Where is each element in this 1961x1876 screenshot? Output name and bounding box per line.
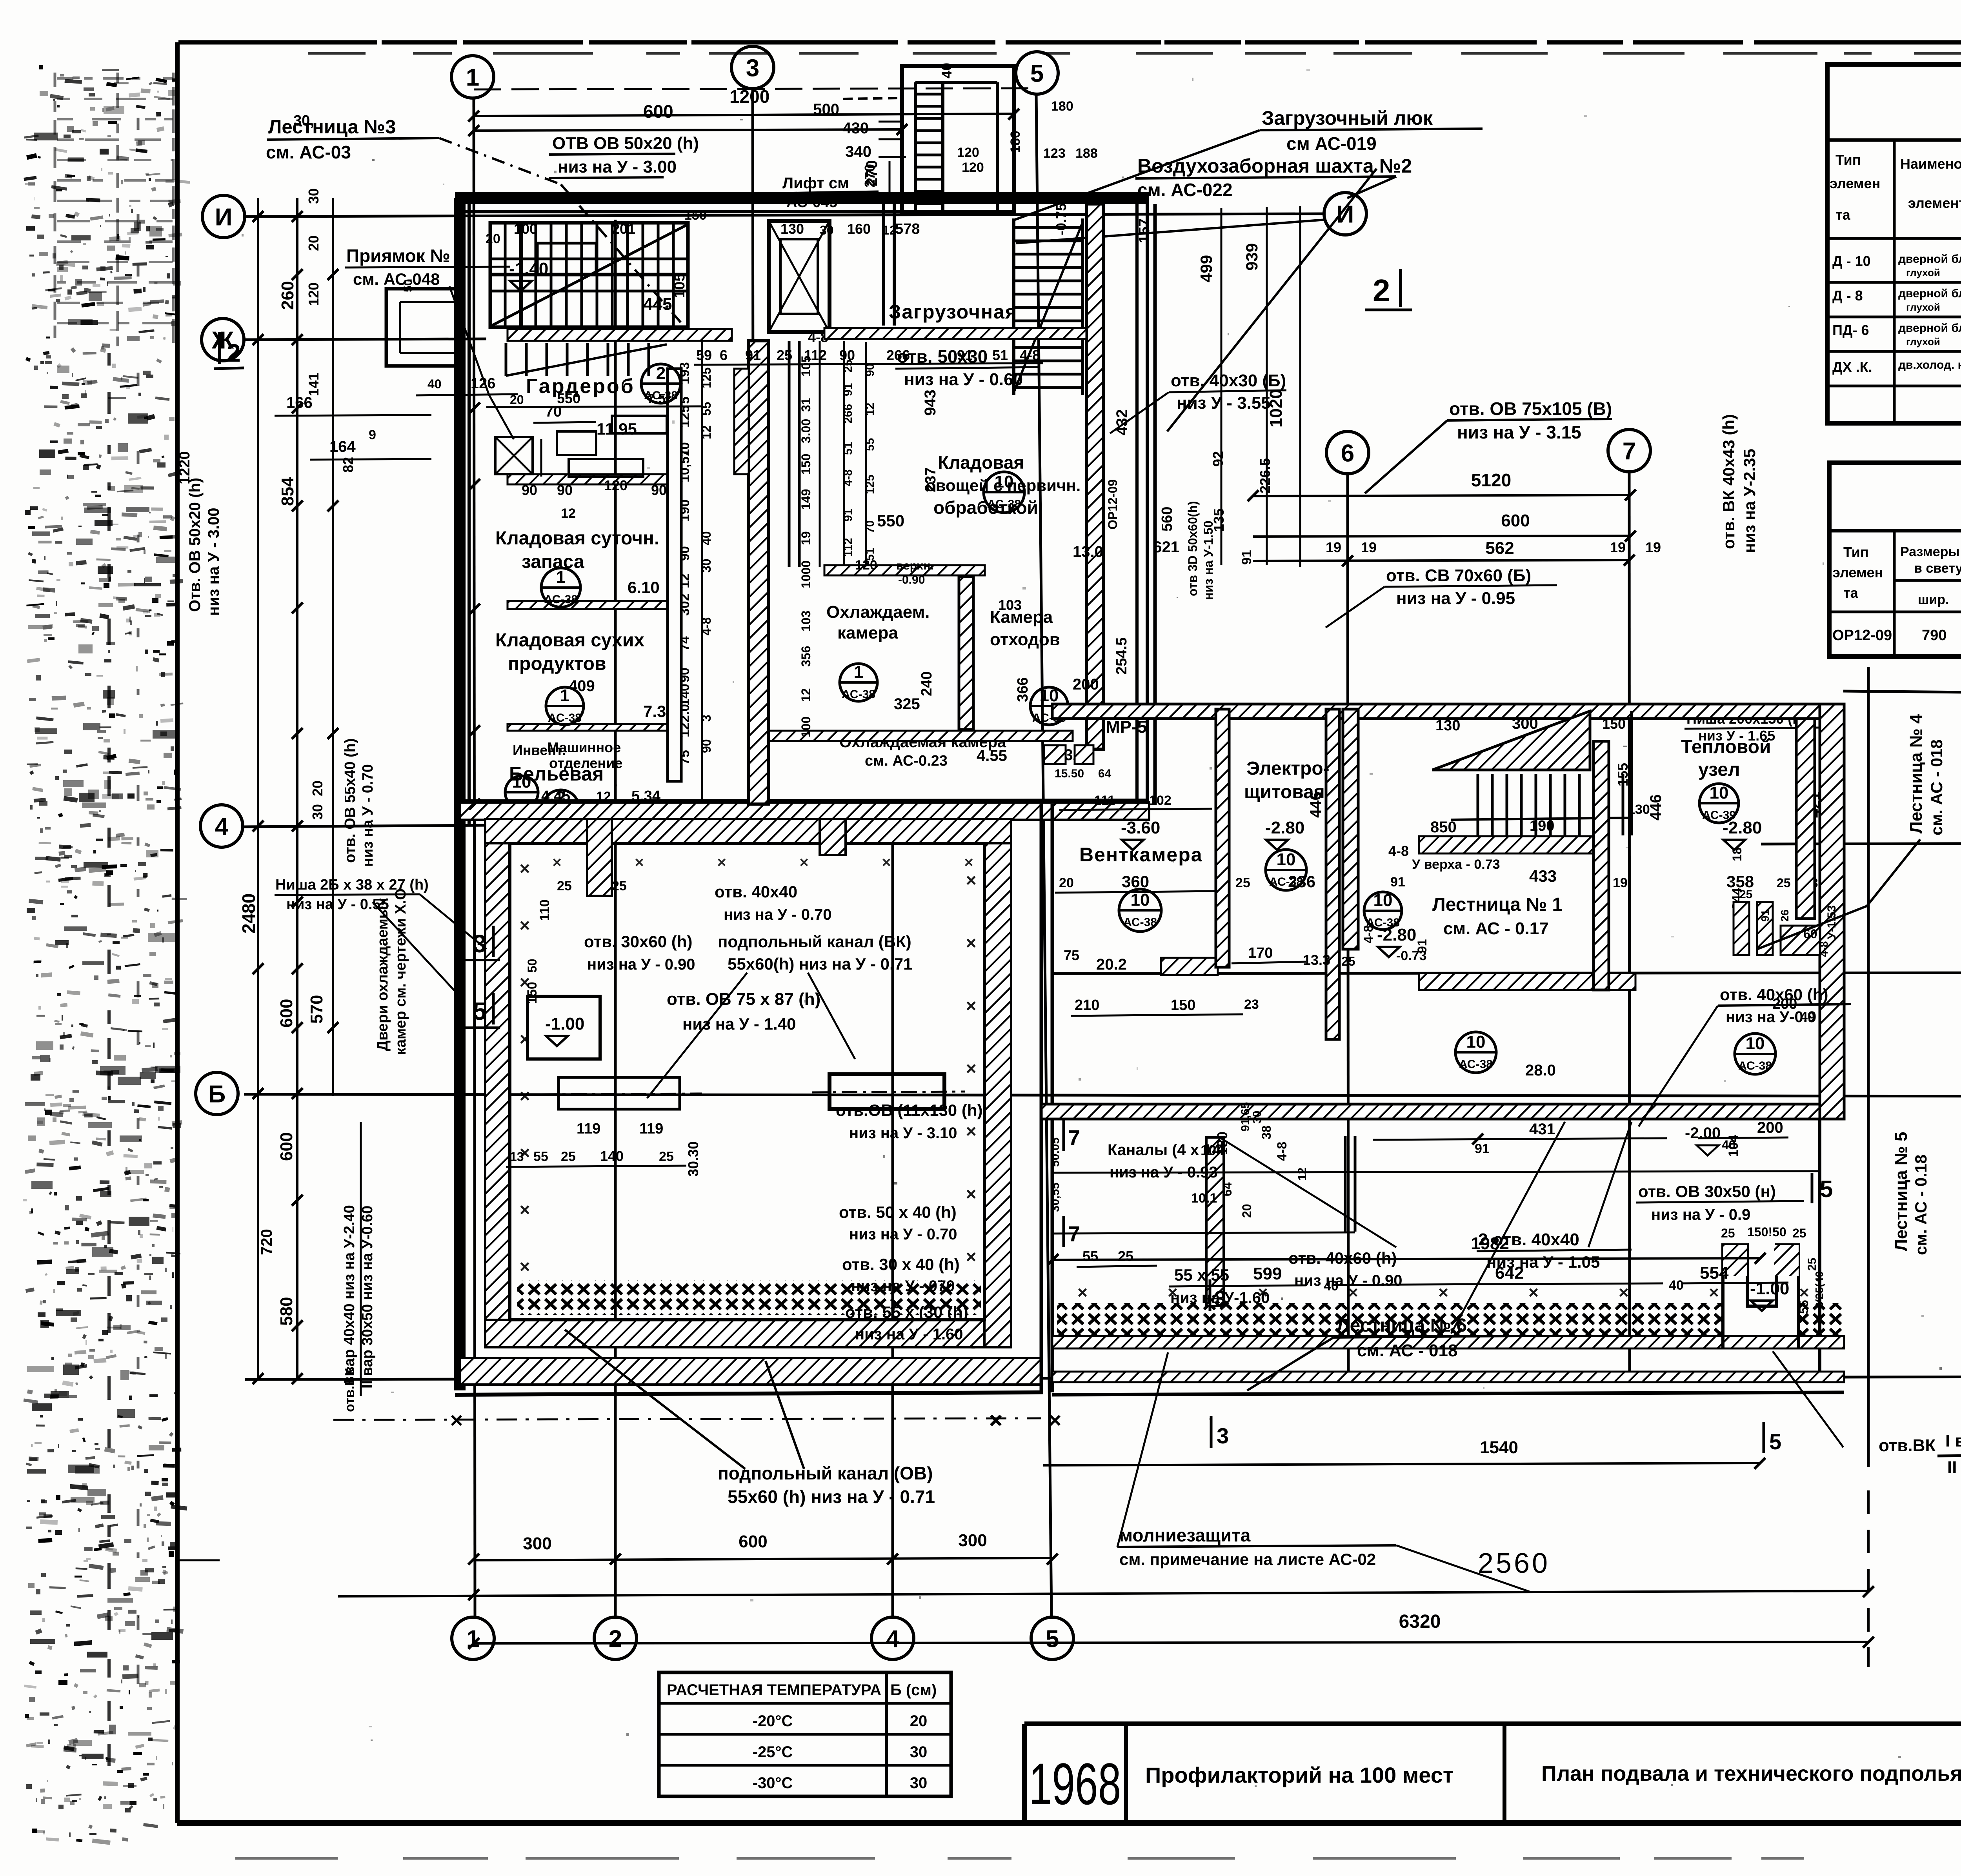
svg-text:102: 102 xyxy=(1149,793,1172,808)
svg-text:см. АС - 018: см. АС - 018 xyxy=(1357,1341,1457,1360)
svg-text:23: 23 xyxy=(1244,997,1259,1012)
svg-text:АС-38: АС-38 xyxy=(548,711,582,724)
svg-text:АС-38: АС-38 xyxy=(1459,1058,1493,1071)
svg-text:5120: 5120 xyxy=(1471,470,1511,490)
svg-text:55: 55 xyxy=(864,438,877,451)
svg-text:554: 554 xyxy=(1700,1263,1729,1283)
svg-text:1: 1 xyxy=(466,64,479,91)
svg-text:19: 19 xyxy=(1613,875,1628,890)
svg-text:125: 125 xyxy=(677,405,692,428)
svg-text:91: 91 xyxy=(1759,910,1771,922)
svg-text:149: 149 xyxy=(799,489,813,510)
svg-text:141: 141 xyxy=(306,373,322,396)
svg-text:1540: 1540 xyxy=(1480,1438,1518,1457)
svg-text:150: 150 xyxy=(684,208,707,223)
svg-text:отв. 30x60 (h): отв. 30x60 (h) xyxy=(584,932,692,951)
svg-text:140: 140 xyxy=(677,684,692,706)
svg-text:19: 19 xyxy=(799,531,813,545)
svg-text:40: 40 xyxy=(939,63,955,78)
svg-text:20: 20 xyxy=(1240,1204,1254,1218)
svg-text:та: та xyxy=(1843,585,1859,601)
svg-text:низ на У - 1.05: низ на У - 1.05 xyxy=(1486,1253,1600,1271)
svg-text:низ на У-1.50: низ на У-1.50 xyxy=(1201,520,1215,600)
svg-text:-2.80: -2.80 xyxy=(1265,818,1304,837)
svg-text:см. АС-0.23: см. АС-0.23 xyxy=(865,753,948,769)
svg-text:25: 25 xyxy=(1341,954,1355,968)
svg-text:150: 150 xyxy=(1602,716,1626,732)
svg-text:низ на У - 3.15: низ на У - 3.15 xyxy=(1457,422,1581,442)
svg-text:глухой: глухой xyxy=(1906,301,1940,313)
svg-text:Загрузочный люк: Загрузочный люк xyxy=(1262,107,1433,129)
svg-text:×: × xyxy=(966,933,977,953)
svg-text:низ на У - 0.90: низ на У - 0.90 xyxy=(587,956,695,973)
svg-text:отв.ВК: отв.ВК xyxy=(1879,1436,1936,1455)
svg-text:5: 5 xyxy=(1030,60,1044,87)
svg-text:499: 499 xyxy=(1197,255,1215,282)
svg-text:6.10: 6.10 xyxy=(628,578,660,597)
svg-text:356: 356 xyxy=(799,646,813,667)
svg-text:130: 130 xyxy=(1628,802,1650,817)
svg-text:10: 10 xyxy=(1373,891,1393,910)
svg-text:низ на У - 0.70: низ на У - 0.70 xyxy=(724,906,832,923)
svg-text:см. АС-022: см. АС-022 xyxy=(1137,180,1233,200)
svg-text:II вар 30x50 низ на У - 0.60: II вар 30x50 низ на У - 0.60 xyxy=(1947,1458,1961,1477)
svg-text:28.0: 28.0 xyxy=(1525,1062,1556,1079)
svg-text:1: 1 xyxy=(854,662,863,682)
svg-text:12: 12 xyxy=(864,403,877,416)
svg-text:55: 55 xyxy=(1797,1300,1811,1314)
svg-text:302: 302 xyxy=(677,593,692,616)
svg-text:низ на У-0.9: низ на У-0.9 xyxy=(1726,1008,1816,1026)
svg-text:25: 25 xyxy=(659,1149,674,1164)
svg-text:120: 120 xyxy=(604,477,628,493)
svg-text:11.95: 11.95 xyxy=(597,420,637,438)
svg-text:дверной блок: дверной блок xyxy=(1898,287,1961,300)
svg-text:20: 20 xyxy=(309,781,326,796)
svg-text:19: 19 xyxy=(1326,539,1341,555)
svg-text:190: 190 xyxy=(677,499,692,522)
svg-text:226.5: 226.5 xyxy=(1257,458,1273,493)
svg-text:План подвала и технического: План подвала и технического подполья в о… xyxy=(1541,1762,1961,1785)
svg-text:600: 600 xyxy=(739,1532,767,1551)
svg-text:5: 5 xyxy=(677,397,692,404)
svg-text:266: 266 xyxy=(886,347,910,363)
svg-text:7: 7 xyxy=(1068,1125,1080,1150)
svg-text:25: 25 xyxy=(1118,1248,1133,1264)
svg-text:91: 91 xyxy=(957,347,973,363)
svg-text:Д - 8: Д - 8 xyxy=(1832,287,1863,304)
svg-text:51: 51 xyxy=(992,347,1008,363)
svg-text:40: 40 xyxy=(427,377,442,391)
svg-text:340: 340 xyxy=(845,143,871,160)
svg-text:170: 170 xyxy=(1248,945,1273,961)
svg-text:12: 12 xyxy=(1296,1168,1309,1181)
svg-text:150!50: 150!50 xyxy=(1747,1225,1786,1239)
svg-text:550: 550 xyxy=(557,390,580,406)
svg-text:отв. ОВ 75 x 87 (h): отв. ОВ 75 x 87 (h) xyxy=(667,990,820,1009)
svg-text:430: 430 xyxy=(842,120,869,137)
svg-text:1220: 1220 xyxy=(176,451,193,484)
svg-text:91: 91 xyxy=(842,383,855,396)
svg-text:562: 562 xyxy=(1485,539,1514,558)
svg-text:-25°C: -25°C xyxy=(753,1743,793,1761)
svg-text:200: 200 xyxy=(1757,1119,1783,1136)
svg-text:201: 201 xyxy=(612,221,635,237)
svg-text:2: 2 xyxy=(609,1625,622,1652)
svg-text:55 x 55: 55 x 55 xyxy=(1174,1266,1229,1284)
svg-text:105: 105 xyxy=(799,356,813,377)
svg-text:160: 160 xyxy=(847,221,871,237)
svg-text:55: 55 xyxy=(1082,1248,1098,1264)
svg-text:180: 180 xyxy=(1051,99,1073,114)
svg-text:237: 237 xyxy=(922,468,939,492)
svg-text:50: 50 xyxy=(402,279,415,292)
svg-text:155: 155 xyxy=(1615,763,1631,786)
svg-text:90: 90 xyxy=(677,668,692,682)
svg-text:низ на У - 1.60: низ на У - 1.60 xyxy=(855,1326,963,1343)
svg-text:×: × xyxy=(520,915,530,935)
svg-text:×: × xyxy=(450,1408,463,1432)
svg-text:30,55: 30,55 xyxy=(1049,1183,1062,1212)
svg-text:-20°C: -20°C xyxy=(753,1712,793,1730)
svg-text:см. АС - 018: см. АС - 018 xyxy=(1927,739,1946,835)
svg-text:АС-38: АС-38 xyxy=(544,593,578,606)
svg-text:ОР12-09: ОР12-09 xyxy=(1106,479,1120,530)
svg-text:шир.: шир. xyxy=(1918,592,1949,607)
svg-text:-2.00: -2.00 xyxy=(1685,1125,1721,1142)
svg-text:20: 20 xyxy=(306,235,322,251)
svg-text:см. АС - 0.18: см. АС - 0.18 xyxy=(1912,1155,1930,1255)
svg-text:854: 854 xyxy=(278,477,297,506)
svg-text:Лестница № 6: Лестница № 6 xyxy=(1337,1315,1467,1336)
svg-text:560: 560 xyxy=(1159,507,1175,531)
svg-text:4-8: 4-8 xyxy=(1818,941,1830,957)
svg-text:отв. ВК 40x43 (h): отв. ВК 40x43 (h) xyxy=(1719,414,1738,549)
svg-text:2: 2 xyxy=(656,364,666,383)
svg-text:10: 10 xyxy=(1040,686,1059,705)
svg-text:105: 105 xyxy=(671,273,688,298)
svg-text:6: 6 xyxy=(1341,440,1354,467)
svg-text:глухой: глухой xyxy=(1906,336,1940,348)
svg-text:120: 120 xyxy=(957,145,979,160)
svg-text:621: 621 xyxy=(1153,539,1179,556)
svg-text:низ на У - 3.00: низ на У - 3.00 xyxy=(558,157,677,177)
svg-text:см. АС - 0.17: см. АС - 0.17 xyxy=(1443,919,1549,938)
svg-text:2480: 2480 xyxy=(238,893,259,933)
svg-text:×: × xyxy=(966,1121,977,1141)
svg-text:550: 550 xyxy=(877,511,904,530)
svg-text:446: 446 xyxy=(1647,794,1664,821)
svg-text:низ на У - 3.00: низ на У - 3.00 xyxy=(205,508,222,616)
svg-text:26: 26 xyxy=(1779,910,1791,922)
svg-text:50.05: 50.05 xyxy=(1049,1137,1062,1167)
svg-text:90: 90 xyxy=(651,482,667,498)
svg-text:103: 103 xyxy=(799,611,813,631)
svg-text:123: 123 xyxy=(1043,146,1066,161)
svg-text:У25(40: У25(40 xyxy=(1813,1271,1825,1306)
svg-text:570: 570 xyxy=(307,995,326,1024)
svg-text:25: 25 xyxy=(1739,888,1752,901)
svg-text:190: 190 xyxy=(1530,818,1554,834)
svg-text:157: 157 xyxy=(1136,218,1153,243)
svg-text:91: 91 xyxy=(1239,550,1254,565)
svg-text:6320: 6320 xyxy=(1399,1611,1441,1632)
svg-text:150: 150 xyxy=(1171,997,1195,1014)
svg-text:Д - 10: Д - 10 xyxy=(1832,253,1871,269)
svg-text:×: × xyxy=(520,1199,530,1220)
svg-text:15.50: 15.50 xyxy=(1055,767,1084,780)
svg-text:Лестница № 4: Лестница № 4 xyxy=(1906,714,1926,833)
svg-text:Профилакторий на 100 мест: Профилакторий на 100 мест xyxy=(1145,1763,1453,1787)
svg-text:51: 51 xyxy=(842,442,855,455)
svg-text:445: 445 xyxy=(643,295,672,314)
svg-text:943: 943 xyxy=(922,389,939,416)
svg-text:7: 7 xyxy=(1068,1221,1080,1246)
svg-text:51: 51 xyxy=(864,548,877,561)
svg-text:низ У - 3.55: низ У - 3.55 xyxy=(1177,393,1271,413)
svg-text:25: 25 xyxy=(612,879,627,893)
svg-text:130: 130 xyxy=(1435,717,1460,734)
svg-text:-2.80: -2.80 xyxy=(1723,818,1762,837)
svg-text:Лестница № 5: Лестница № 5 xyxy=(1892,1132,1911,1251)
svg-text:10.1: 10.1 xyxy=(1191,1191,1217,1206)
svg-text:Наименован: Наименован xyxy=(1900,156,1961,172)
svg-text:-0.90: -0.90 xyxy=(898,573,925,586)
svg-text:25: 25 xyxy=(777,347,792,363)
svg-text:отв. 40x30 (Б): отв. 40x30 (Б) xyxy=(1171,371,1286,390)
svg-text:камер см. чертежи Х.О: камер см. чертежи Х.О xyxy=(393,888,409,1055)
svg-text:дв.холод. камер: дв.холод. камер xyxy=(1898,358,1961,371)
svg-text:Тип: Тип xyxy=(1843,544,1869,560)
svg-text:1000: 1000 xyxy=(799,560,813,588)
svg-text:64: 64 xyxy=(1220,1182,1234,1196)
svg-text:50: 50 xyxy=(525,959,539,973)
svg-text:30.30: 30.30 xyxy=(685,1141,701,1177)
svg-text:90: 90 xyxy=(864,364,877,377)
svg-text:5: 5 xyxy=(1769,1429,1781,1454)
svg-text:5: 5 xyxy=(1046,1625,1059,1652)
svg-text:-0.75: -0.75 xyxy=(1053,203,1069,235)
svg-text:9: 9 xyxy=(369,428,376,442)
svg-text:20: 20 xyxy=(1059,875,1074,890)
svg-text:30: 30 xyxy=(306,188,322,204)
svg-text:×: × xyxy=(966,995,977,1016)
svg-text:25: 25 xyxy=(1777,876,1791,890)
svg-text:300: 300 xyxy=(958,1531,987,1550)
svg-text:продуктов: продуктов xyxy=(508,653,606,674)
svg-text:64: 64 xyxy=(1098,767,1111,780)
svg-text:низ на У - 0.70: низ на У - 0.70 xyxy=(360,764,376,867)
svg-text:×: × xyxy=(966,1184,977,1204)
svg-text:Кладовая суточн.: Кладовая суточн. xyxy=(495,528,659,549)
svg-text:низ на У - 0.60: низ на У - 0.60 xyxy=(904,370,1023,389)
svg-text:90: 90 xyxy=(522,482,537,498)
svg-text:300: 300 xyxy=(523,1534,551,1553)
svg-text:отв. ОВ 55x40 (h): отв. ОВ 55x40 (h) xyxy=(342,738,358,863)
svg-text:Тип: Тип xyxy=(1835,152,1861,168)
svg-text:Кладовая: Кладовая xyxy=(938,452,1024,473)
svg-text:25: 25 xyxy=(1792,1226,1806,1240)
svg-text:2: 2 xyxy=(1373,273,1390,308)
svg-text:120: 120 xyxy=(306,282,322,306)
svg-text:отв. СВ 70x60 (Б): отв. СВ 70x60 (Б) xyxy=(1386,566,1531,585)
svg-text:×: × xyxy=(1799,1283,1809,1302)
svg-text:РАСЧЕТНАЯ ТЕМПЕРАТУРА: РАСЧЕТНАЯ ТЕМПЕРАТУРА xyxy=(667,1681,881,1699)
svg-text:×: × xyxy=(966,870,977,890)
svg-text:140: 140 xyxy=(600,1148,624,1164)
svg-text:270: 270 xyxy=(862,164,878,187)
svg-text:Б (см): Б (см) xyxy=(890,1681,937,1699)
svg-text:×: × xyxy=(799,854,808,871)
svg-text:20.2: 20.2 xyxy=(1096,956,1127,973)
svg-text:I вар 40x40 низ на У -2.40: I вар 40x40 низ на У -2.40 xyxy=(1945,1431,1961,1450)
svg-text:×: × xyxy=(966,1246,977,1267)
svg-text:молниезащита: молниезащита xyxy=(1119,1525,1251,1545)
svg-text:240: 240 xyxy=(919,671,935,696)
svg-text:Размеры проема: Размеры проема xyxy=(1900,544,1961,559)
svg-text:112: 112 xyxy=(842,538,855,557)
svg-text:110: 110 xyxy=(537,899,552,921)
svg-text:100: 100 xyxy=(799,717,813,737)
svg-text:см. АС-048: см. АС-048 xyxy=(353,270,440,288)
svg-text:см. АС-03: см. АС-03 xyxy=(266,142,351,162)
svg-text:отв. 50 x 40 (h): отв. 50 x 40 (h) xyxy=(839,1203,957,1221)
svg-text:×: × xyxy=(520,1086,530,1106)
svg-text:19: 19 xyxy=(1361,539,1377,555)
svg-text:Машинное: Машинное xyxy=(547,739,621,755)
svg-text:70: 70 xyxy=(864,520,877,533)
svg-text:360: 360 xyxy=(1122,872,1149,891)
svg-text:отв. ОВ 30x50 (н): отв. ОВ 30x50 (н) xyxy=(1638,1182,1776,1201)
svg-text:Электро-: Электро- xyxy=(1246,758,1330,779)
svg-text:91: 91 xyxy=(1415,939,1429,953)
svg-text:×: × xyxy=(1049,1408,1062,1432)
svg-text:1: 1 xyxy=(560,686,569,705)
svg-text:7.3: 7.3 xyxy=(643,702,666,721)
svg-text:25: 25 xyxy=(1235,875,1250,890)
svg-text:600: 600 xyxy=(277,999,296,1028)
svg-text:3: 3 xyxy=(1214,1286,1226,1311)
svg-text:30: 30 xyxy=(910,1774,928,1792)
svg-text:низ на У - 1.40: низ на У - 1.40 xyxy=(682,1015,796,1033)
svg-text:10: 10 xyxy=(1466,1032,1486,1052)
svg-text:38: 38 xyxy=(1259,1125,1273,1139)
svg-text:Загрузочная: Загрузочная xyxy=(889,301,1017,323)
svg-text:13.0: 13.0 xyxy=(1073,543,1103,560)
svg-text:×: × xyxy=(717,854,726,871)
svg-text:166: 166 xyxy=(286,394,313,411)
svg-text:I вар 40x40 низ на У-2.40: I вар 40x40 низ на У-2.40 xyxy=(341,1205,358,1384)
svg-text:30: 30 xyxy=(309,804,326,820)
svg-text:82: 82 xyxy=(340,457,356,473)
svg-text:13.3: 13.3 xyxy=(1303,952,1330,968)
svg-text:210: 210 xyxy=(1075,997,1099,1014)
svg-text:111: 111 xyxy=(1094,793,1115,808)
svg-text:91,65: 91,65 xyxy=(1239,1102,1252,1132)
svg-text:119: 119 xyxy=(577,1121,600,1137)
svg-text:МР-5: МР-5 xyxy=(1106,717,1147,737)
svg-text:600: 600 xyxy=(277,1132,296,1161)
svg-text:отв. 40x40: отв. 40x40 xyxy=(715,883,797,901)
svg-text:75: 75 xyxy=(1064,947,1079,963)
svg-text:4-8: 4-8 xyxy=(1020,347,1040,363)
svg-text:7.5: 7.5 xyxy=(647,391,666,406)
svg-text:6: 6 xyxy=(720,347,728,363)
svg-text:отв.ОВ (11x130 (h): отв.ОВ (11x130 (h) xyxy=(836,1101,982,1119)
svg-text:низ на У - 0.90: низ на У - 0.90 xyxy=(1294,1272,1403,1289)
svg-text:Воздухозаборная шахта №2: Воздухозаборная шахта №2 xyxy=(1137,155,1412,177)
svg-text:20: 20 xyxy=(486,231,500,246)
svg-text:600: 600 xyxy=(643,101,673,122)
svg-text:5: 5 xyxy=(1820,1176,1833,1202)
svg-text:подпольный канал (ВК): подпольный канал (ВК) xyxy=(718,932,911,951)
svg-text:790: 790 xyxy=(1922,627,1946,644)
svg-text:188: 188 xyxy=(1075,146,1098,161)
svg-text:3.00: 3.00 xyxy=(799,419,813,443)
svg-text:500: 500 xyxy=(813,101,839,118)
svg-text:119: 119 xyxy=(639,1121,663,1137)
svg-text:12: 12 xyxy=(799,688,813,702)
svg-text:10: 10 xyxy=(512,772,531,792)
svg-text:отв. 40x60 (h): отв. 40x60 (h) xyxy=(1288,1249,1397,1267)
svg-text:431: 431 xyxy=(1529,1121,1555,1138)
svg-text:-1.00: -1.00 xyxy=(545,1014,584,1034)
svg-text:103: 103 xyxy=(998,597,1022,613)
svg-text:глухой: глухой xyxy=(1906,267,1940,278)
svg-text:4-8: 4-8 xyxy=(1275,1142,1290,1161)
svg-text:×: × xyxy=(989,1408,1002,1432)
svg-text:×: × xyxy=(964,854,973,871)
svg-text:×: × xyxy=(520,1256,530,1277)
svg-text:10: 10 xyxy=(1131,890,1150,910)
svg-text:Венткамера: Венткамера xyxy=(1079,844,1203,866)
svg-text:91: 91 xyxy=(745,347,761,363)
svg-text:2560: 2560 xyxy=(1478,1548,1550,1579)
svg-text:см. примечание на листе АС-0: см. примечание на листе АС-02 xyxy=(1119,1550,1376,1568)
svg-text:отв. 55 x (30 (h): отв. 55 x (30 (h) xyxy=(845,1303,968,1321)
svg-text:446: 446 xyxy=(1307,792,1324,818)
svg-text:Б: Б xyxy=(208,1081,226,1108)
svg-text:низ на У - 0.95: низ на У - 0.95 xyxy=(1396,589,1515,608)
svg-text:ОТВ ОВ 50x20 (h): ОТВ ОВ 50x20 (h) xyxy=(552,134,699,153)
svg-text:×: × xyxy=(1709,1283,1719,1302)
svg-text:55x60 (h) низ на У - 0.71: 55x60 (h) низ на У - 0.71 xyxy=(728,1487,935,1507)
svg-text:939: 939 xyxy=(1242,243,1261,271)
svg-text:×: × xyxy=(520,858,530,879)
svg-text:300: 300 xyxy=(1512,715,1538,732)
svg-text:×: × xyxy=(520,972,530,992)
svg-text:5: 5 xyxy=(473,997,487,1025)
svg-text:10: 10 xyxy=(1277,850,1296,869)
svg-text:подпольный канал (ОВ): подпольный канал (ОВ) xyxy=(718,1463,933,1483)
svg-text:2: 2 xyxy=(227,339,241,367)
svg-text:120: 120 xyxy=(962,160,984,175)
svg-text:×: × xyxy=(635,854,644,871)
svg-text:АС-38: АС-38 xyxy=(987,498,1021,511)
svg-text:верхн.: верхн. xyxy=(896,559,934,572)
svg-text:×: × xyxy=(520,1143,530,1163)
svg-text:164: 164 xyxy=(329,438,356,455)
svg-text:низ на У-2.35: низ на У-2.35 xyxy=(1740,449,1759,553)
svg-text:40: 40 xyxy=(1669,1278,1684,1293)
svg-text:30: 30 xyxy=(910,1743,928,1761)
svg-text:4: 4 xyxy=(886,1625,900,1652)
svg-text:433: 433 xyxy=(1529,867,1557,885)
svg-text:7: 7 xyxy=(1623,438,1636,465)
svg-text:20: 20 xyxy=(910,1712,928,1730)
svg-text:элемен: элемен xyxy=(1830,175,1880,191)
svg-text:2 отв. 40x40: 2 отв. 40x40 xyxy=(1478,1230,1579,1249)
